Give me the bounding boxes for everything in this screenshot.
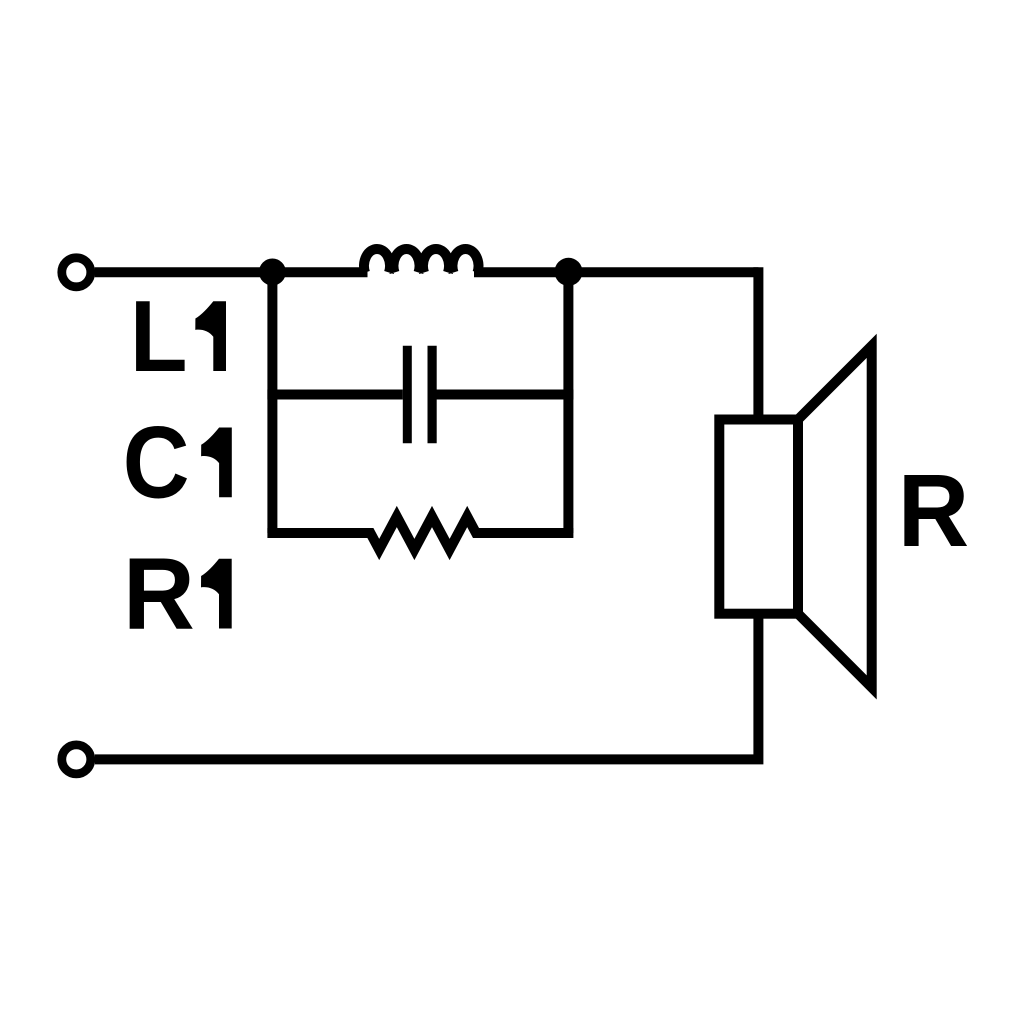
wire left branch vertical (junction A down to resistor row) (267, 272, 277, 533)
svg-text:L: L (130, 279, 188, 393)
terminal bottom-left (open circle) (62, 745, 91, 774)
wire capacitor row left (267, 390, 402, 400)
inductor L1 (4 humps on top wire) (364, 249, 479, 273)
wire right branch vertical (junction B down to resistor row) (563, 272, 573, 533)
wire capacitor row right (437, 390, 574, 400)
resistor R1 zigzag (267, 517, 573, 550)
wire right vertical lower + bottom horizontal (speaker to bottom terminal) (95, 614, 759, 760)
junction node B (dot) (555, 258, 583, 286)
svg-text:C: C (123, 405, 190, 519)
wire right vertical upper (top wire down to speaker) (753, 267, 763, 419)
junction node A (dot) (259, 259, 286, 286)
terminal top-left (open circle) (62, 258, 91, 287)
capacitor C1 left plate (403, 346, 412, 444)
svg-text:R: R (123, 537, 195, 650)
speaker driver rectangle (719, 420, 798, 614)
wire top horizontal right (inductor to speaker corner) (474, 267, 758, 277)
speaker cone (798, 346, 872, 688)
capacitor C1 right plate (428, 346, 437, 444)
svg-text:R: R (898, 454, 969, 568)
wire top horizontal left (input to inductor) (95, 267, 368, 277)
